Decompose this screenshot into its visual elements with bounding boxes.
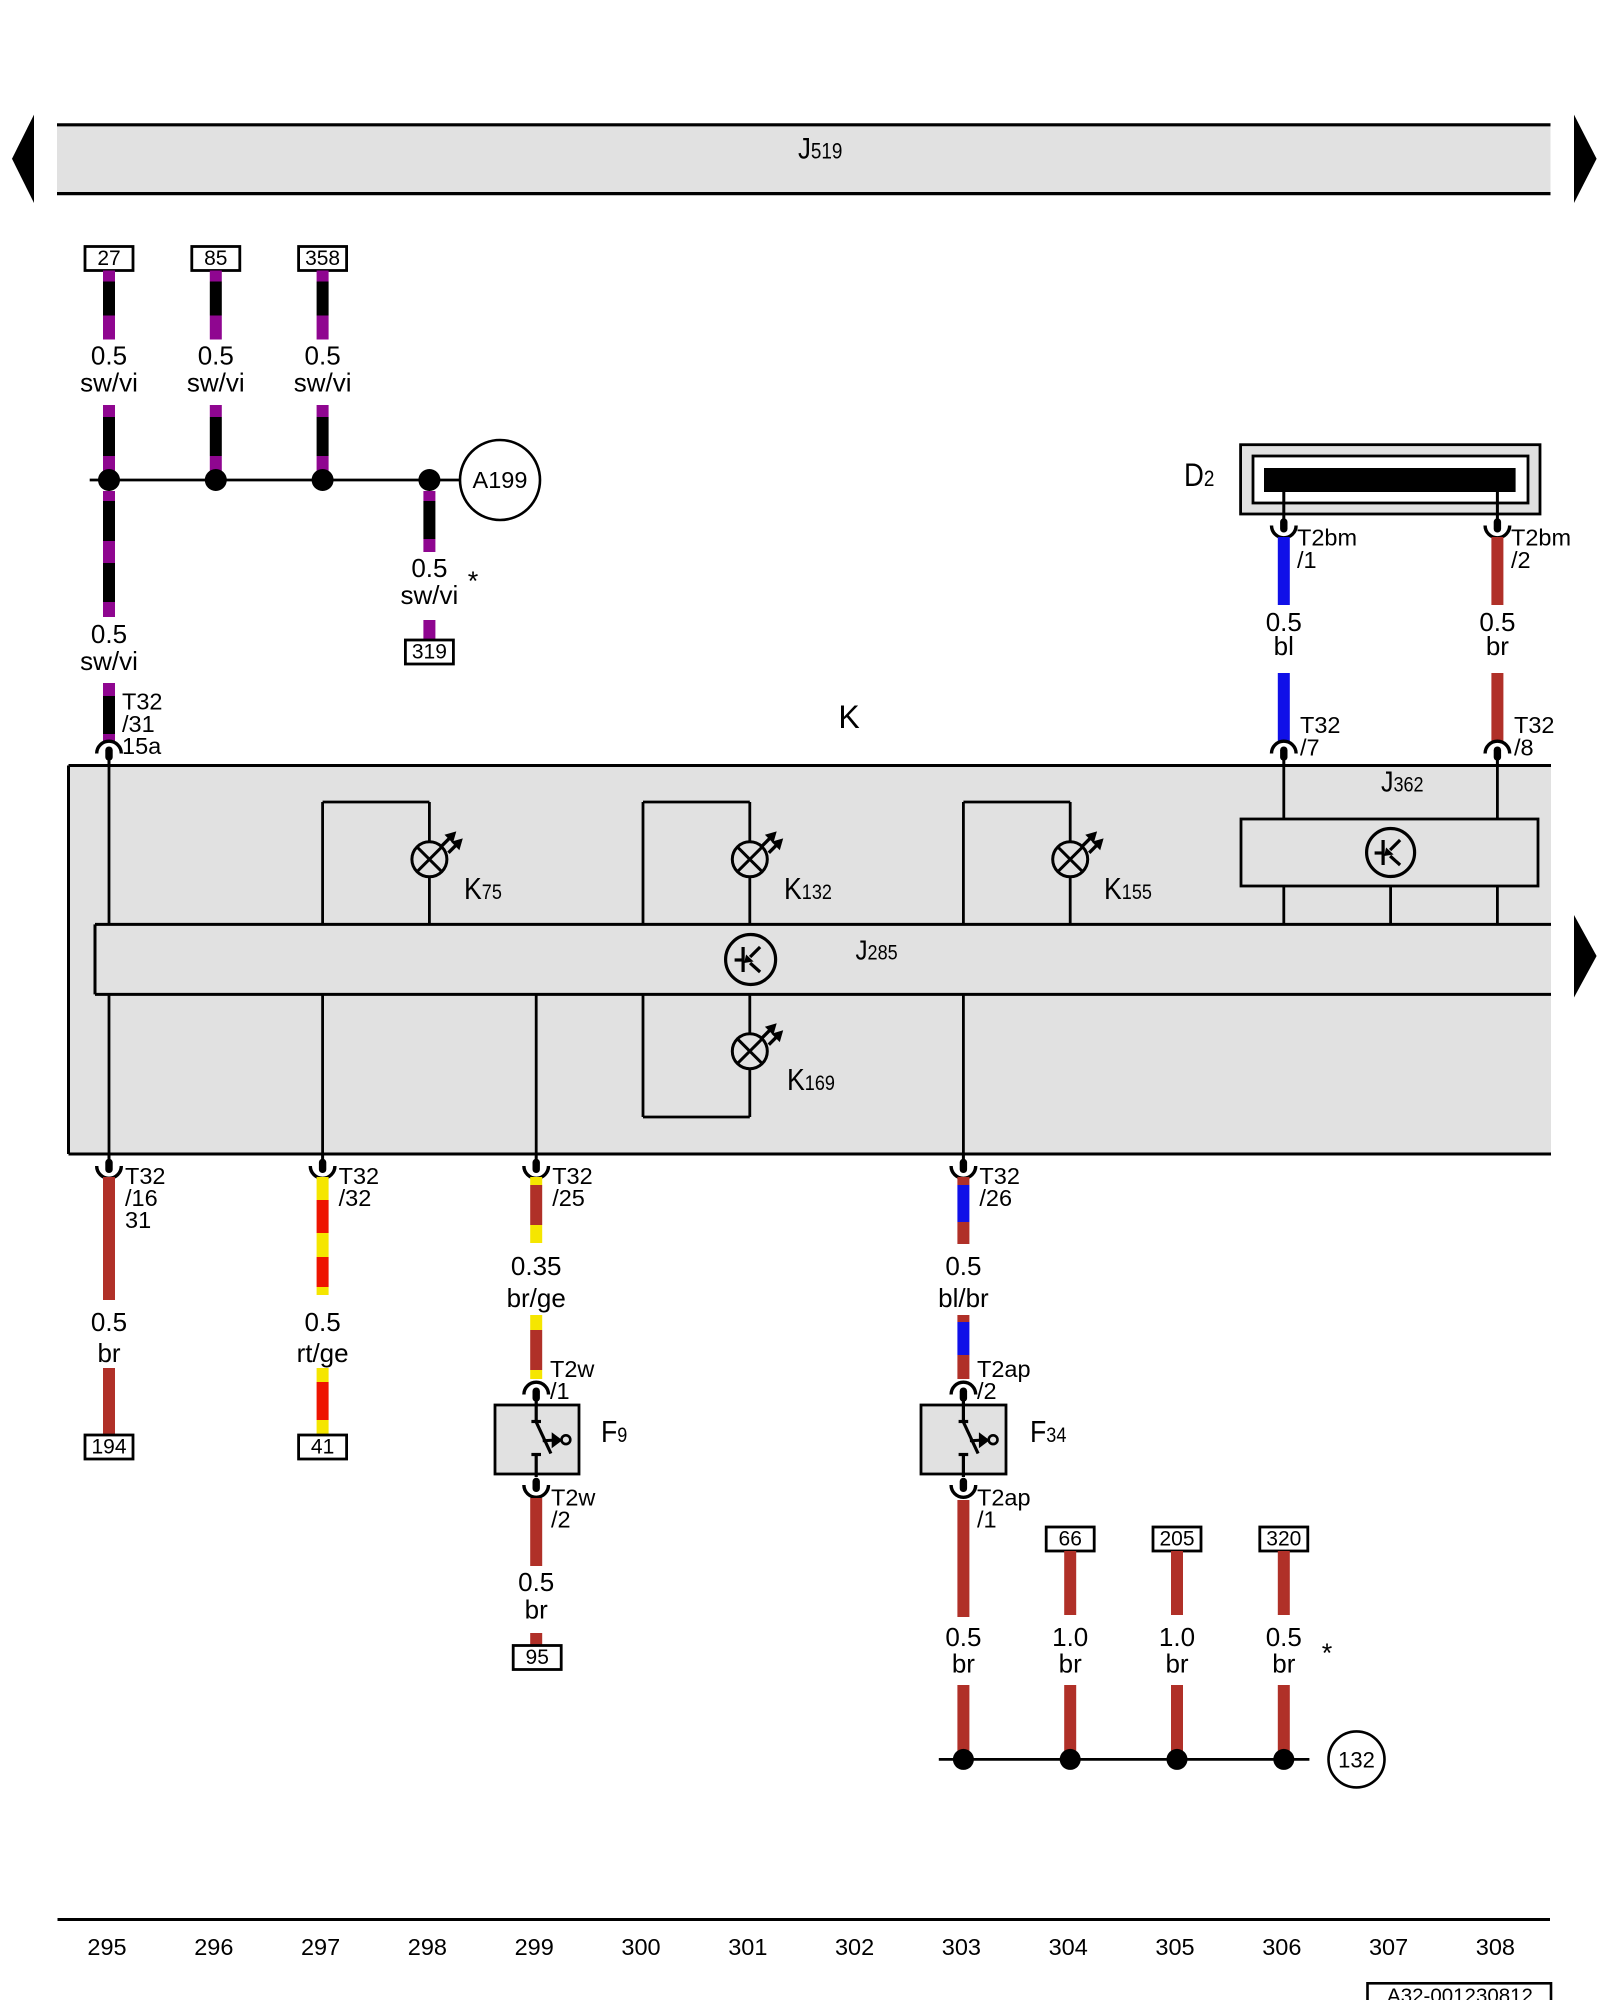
svg-text:301: 301 (728, 1934, 767, 1960)
connector T2ap/2 (951, 1382, 976, 1394)
terminal 27 (85, 247, 133, 271)
svg-text:303: 303 (942, 1934, 981, 1960)
svg-text:0.5: 0.5 (91, 1307, 127, 1337)
wire 0.5 sw/vi from terminal 358 (317, 271, 329, 282)
svg-text:300: 300 (621, 1934, 660, 1960)
svg-text:br: br (952, 1649, 975, 1679)
svg-text:0.5: 0.5 (91, 619, 127, 649)
svg-text:br: br (97, 1338, 120, 1368)
ground junction dot (305) (1167, 1749, 1188, 1770)
photocell symbol J285 (726, 935, 776, 985)
connector T32/8 (1485, 741, 1510, 753)
wire sw/vi to junction (358) (317, 405, 329, 417)
svg-text:bl/br: bl/br (938, 1283, 989, 1313)
indicator lamp K132 (732, 842, 767, 877)
wire br from terminal 320 (1278, 1551, 1290, 1615)
svg-text:297: 297 (301, 1934, 340, 1960)
svg-text:0.5: 0.5 (305, 1307, 341, 1337)
svg-text:0.5: 0.5 (945, 1622, 981, 1652)
pin line D2/2 (1496, 492, 1499, 520)
wire 0.5 sw/vi below junction (to T32/31) (103, 491, 115, 501)
svg-text:/7: /7 (1300, 734, 1320, 760)
wire br to ground junction (303) (957, 1685, 969, 1752)
terminal 66 (1046, 1527, 1094, 1551)
handbrake warning switch F9 (495, 1405, 579, 1474)
wire stub at terminal 319 (423, 620, 435, 640)
svg-text:41: 41 (311, 1436, 334, 1459)
svg-text:304: 304 (1049, 1934, 1088, 1960)
wire br from terminal 66 (1064, 1551, 1076, 1615)
svg-text:sw/vi: sw/vi (80, 646, 138, 676)
terminal 95 (513, 1646, 561, 1670)
svg-text:/26: /26 (979, 1185, 1012, 1211)
svg-text:132: 132 (1338, 1748, 1375, 1773)
wire 0.5 br below F34 (957, 1500, 969, 1617)
svg-text:66: 66 (1059, 1528, 1082, 1551)
svg-text:br/ge: br/ge (507, 1283, 566, 1313)
svg-text:306: 306 (1262, 1934, 1301, 1960)
ground junction dot (303) (953, 1749, 974, 1770)
svg-text:307: 307 (1369, 1934, 1408, 1960)
svg-text:F34: F34 (1030, 1415, 1066, 1449)
instrument cluster K box (69, 766, 1552, 1155)
svg-text:295: 295 (87, 1934, 126, 1960)
svg-text:302: 302 (835, 1934, 874, 1960)
svg-text:319: 319 (412, 641, 447, 664)
svg-text:D2: D2 (1184, 458, 1214, 493)
wire 0.35 br/ge from T32/25 (530, 1177, 542, 1185)
svg-text:br: br (1272, 1649, 1295, 1679)
diagram reference A32-001230812 (1368, 1983, 1552, 2000)
wire rt/ge to terminal 41 (317, 1368, 329, 1382)
connector T32/31 (97, 741, 122, 753)
svg-text:/32: /32 (339, 1185, 372, 1211)
terminal 319 (405, 640, 453, 664)
svg-text:298: 298 (408, 1934, 447, 1960)
svg-text:br: br (1165, 1649, 1188, 1679)
wire sw/vi to junction (27) (103, 405, 115, 417)
svg-text:/1: /1 (550, 1378, 570, 1404)
svg-text:1.0: 1.0 (1159, 1622, 1195, 1652)
connector T32/16 (108, 1154, 111, 1160)
wire bl/br into T2ap/2 (957, 1315, 969, 1322)
terminal 41 (299, 1435, 347, 1459)
svg-text:sw/vi: sw/vi (80, 368, 138, 398)
wire 0.5 bl into pin T32/7 (1278, 673, 1290, 742)
terminal 320 (1260, 1527, 1308, 1551)
wire loop for lamp K169 (642, 994, 645, 1117)
photocell symbol J362 (1367, 829, 1415, 877)
wire sw/vi into pin T32/31 (103, 683, 115, 696)
label K75 (464, 872, 502, 906)
svg-text:K: K (838, 699, 859, 735)
ground junction dot (306) (1273, 1749, 1294, 1770)
svg-text:0.5: 0.5 (1266, 1622, 1302, 1652)
control unit J519 bus bar (57, 125, 1551, 194)
connector T32/25 (535, 1154, 538, 1160)
svg-text:0.5: 0.5 (945, 1251, 981, 1281)
illumination control unit J362 box (1282, 766, 1285, 820)
brake fluid level warning switch F34 (921, 1405, 1006, 1474)
svg-text:/8: /8 (1514, 734, 1534, 760)
label J362 (1381, 766, 1424, 798)
wire 0.5 bl upper (1278, 537, 1290, 605)
ground node 132 (1329, 1731, 1385, 1787)
terminal 85 (192, 247, 240, 271)
label J285 (856, 934, 898, 966)
aerial D2 body (1241, 445, 1540, 514)
wire 0.5 rt/ge from T32/32 (317, 1177, 329, 1200)
ground bus wire (939, 1758, 1310, 1761)
svg-text:296: 296 (194, 1934, 233, 1960)
wire br from terminal 205 (1171, 1551, 1183, 1615)
svg-text:205: 205 (1159, 1528, 1194, 1551)
svg-text:1.0: 1.0 (1052, 1622, 1088, 1652)
svg-text:0.5: 0.5 (518, 1567, 554, 1597)
connector T32/26 (962, 1154, 965, 1160)
svg-text:27: 27 (97, 247, 120, 270)
connector T2w/2 (524, 1485, 549, 1497)
svg-text:/2: /2 (1511, 547, 1531, 573)
connector T2w/1 (524, 1382, 549, 1394)
svg-text:sw/vi: sw/vi (294, 368, 352, 398)
wire 0.5 br from T32/16 (103, 1177, 115, 1300)
label F34 (1030, 1415, 1066, 1449)
connector T32/32 (321, 1154, 324, 1160)
internal wire to T32/25 (535, 994, 538, 1154)
wire 0.5 br upper (1491, 537, 1503, 605)
terminal 358 (299, 247, 347, 271)
svg-text:br: br (1486, 631, 1509, 661)
pin line D2/1 (1282, 492, 1285, 520)
J362 stub wires to J285 (1282, 886, 1285, 924)
svg-text:0.5: 0.5 (91, 341, 127, 371)
svg-text:0.35: 0.35 (511, 1251, 562, 1281)
ground junction dot (304) (1060, 1749, 1081, 1770)
svg-text:358: 358 (305, 247, 340, 270)
svg-text:A199: A199 (473, 467, 528, 493)
wire br to ground junction (205) (1171, 1685, 1183, 1752)
wire br/ge into T2w/1 (530, 1315, 542, 1330)
wire sw/vi to junction (85) (210, 405, 222, 417)
junction dot at column 298 (418, 469, 440, 491)
terminal 194 (85, 1435, 133, 1459)
svg-text:bl: bl (1274, 631, 1294, 661)
terminal 205 (1153, 1527, 1201, 1551)
svg-text:*: * (1322, 1638, 1333, 1668)
connector T2bm/2 (1485, 526, 1510, 538)
svg-text:rt/ge: rt/ge (297, 1338, 349, 1368)
svg-text:308: 308 (1476, 1934, 1515, 1960)
svg-text:*: * (468, 566, 479, 596)
junction dot at column 296 (205, 469, 227, 491)
svg-text:/2: /2 (977, 1378, 997, 1404)
svg-text:0.5: 0.5 (305, 341, 341, 371)
wire br to ground junction (66) (1064, 1685, 1076, 1752)
wire 0.5 sw/vi from terminal 85 (210, 271, 222, 282)
continuation arrow left (12, 115, 34, 203)
svg-text:A32-001230812: A32-001230812 (1387, 1985, 1533, 2000)
indicator lamp K169 (732, 1034, 767, 1069)
svg-text:15a: 15a (122, 733, 162, 759)
label K132 (784, 872, 832, 906)
label J519 (798, 132, 842, 165)
wire loop for lamp K75 (321, 802, 324, 924)
svg-text:br: br (1059, 1649, 1082, 1679)
connector T2bm/1 (1272, 526, 1297, 538)
junction dot at column 297 (312, 469, 334, 491)
indicator lamp K75 (412, 842, 447, 877)
svg-text:31: 31 (125, 1207, 151, 1233)
wire br to ground junction (320) (1278, 1685, 1290, 1752)
wire loop for lamp K155 (962, 802, 965, 924)
svg-text:sw/vi: sw/vi (401, 580, 459, 610)
continuation arrow right at J285 (1574, 915, 1597, 998)
wire 0.5 br below F9 (530, 1498, 542, 1566)
label K169 (787, 1063, 835, 1097)
wire 0.5 sw/vi from terminal 27 (103, 271, 115, 282)
connector T32/7 (1272, 741, 1297, 753)
node A199 (460, 440, 540, 520)
wire 0.5 br into pin T32/8 (1491, 673, 1503, 742)
svg-text:299: 299 (515, 1934, 554, 1960)
label K155 (1104, 872, 1152, 906)
svg-text:sw/vi: sw/vi (187, 368, 245, 398)
svg-text:/25: /25 (552, 1185, 585, 1211)
wire 0.5 bl/br from T32/26 (957, 1177, 969, 1185)
svg-text:F9: F9 (601, 1415, 627, 1449)
internal wire from T32/16 (108, 994, 111, 1154)
svg-text:br: br (525, 1595, 548, 1625)
equipotential wire to node A199 (90, 479, 460, 482)
svg-text:305: 305 (1155, 1934, 1194, 1960)
wire br to terminal 194 (103, 1368, 115, 1434)
wire 0.5 sw/vi to terminal 319 (423, 491, 435, 501)
current track scale line (58, 1918, 1551, 1921)
svg-text:0.5: 0.5 (198, 341, 234, 371)
svg-text:85: 85 (204, 247, 227, 270)
continuation arrow right top (1574, 115, 1597, 203)
wire br stub to terminal 95 (530, 1633, 542, 1646)
indicator lamp K155 (1053, 842, 1088, 877)
dimmer J285 bar (95, 924, 1551, 994)
svg-text:/1: /1 (977, 1507, 997, 1533)
svg-text:95: 95 (526, 1646, 549, 1669)
junction dot at column 295 (98, 469, 120, 491)
svg-text:/1: /1 (1297, 547, 1317, 573)
svg-text:0.5: 0.5 (411, 553, 447, 583)
internal wire to T32/26 (962, 994, 965, 1154)
wire loop for lamp K132 (642, 802, 645, 924)
connector T2ap/1 (951, 1485, 976, 1497)
internal wire to T32/32 (321, 994, 324, 1154)
svg-text:320: 320 (1266, 1528, 1301, 1551)
label D2 (1184, 458, 1214, 493)
label F9 (601, 1415, 627, 1449)
internal wire from T32/31 (108, 766, 111, 925)
svg-text:/2: /2 (551, 1507, 571, 1533)
svg-text:194: 194 (91, 1436, 126, 1459)
